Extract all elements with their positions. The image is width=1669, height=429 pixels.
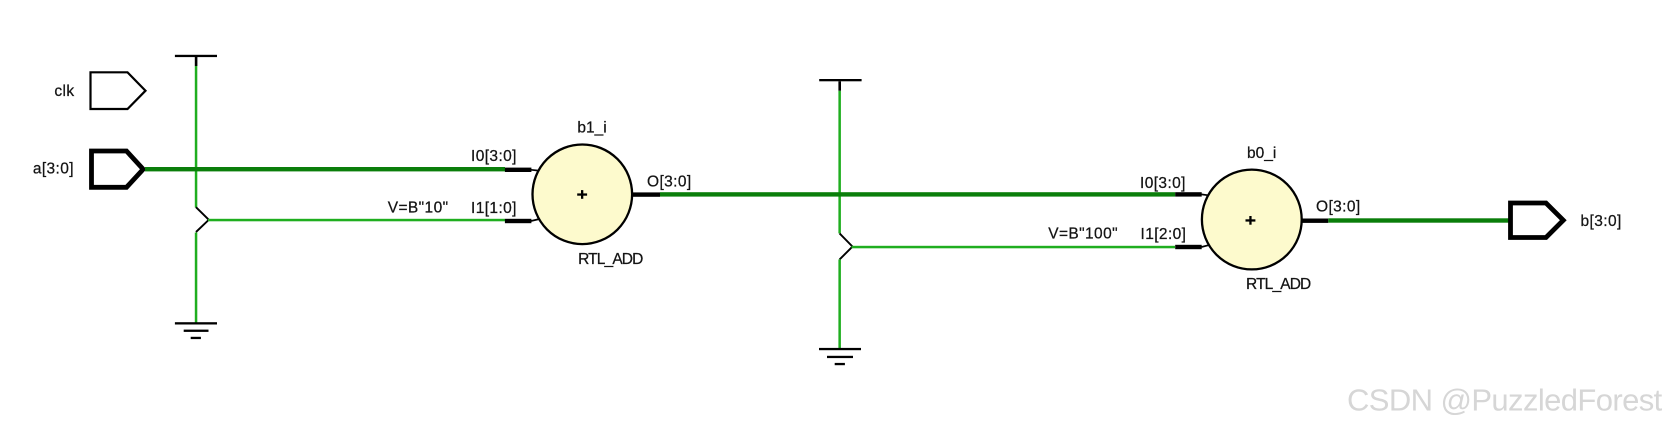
pin label I0[3:0] of b1_i [471,148,517,165]
svg-text:O[3:0]: O[3:0] [1316,199,1361,216]
watermark CSDN @PuzzledForest [1347,383,1663,418]
input port clk [91,72,146,109]
svg-text:V=B"10": V=B"10" [388,200,449,217]
svg-text:V=B"100": V=B"100" [1048,226,1118,243]
power supply T symbol 1 [175,55,217,66]
cell type label RTL_ADD of b0_i [1246,276,1311,293]
svg-text:RTL_ADD: RTL_ADD [578,251,643,268]
instance label b0_i [1247,145,1276,162]
port label b[3:0] [1581,213,1622,230]
pin stub O of b1_i [633,192,661,196]
svg-text:clk: clk [54,83,74,100]
svg-text:RTL_ADD: RTL_ADD [1246,276,1311,293]
input port a[3:0] [92,151,144,187]
bus tap 2 chevron [840,233,853,259]
svg-text:b1_i: b1_i [577,120,606,137]
output port b[3:0] [1511,203,1564,238]
pin label I0[3:0] of b0_i [1140,175,1186,192]
power supply T symbol 2 [819,79,861,91]
cell type label RTL_ADD of b1_i [578,251,643,268]
pin label O[3:0] of b1_i [647,174,692,191]
plus sign of b1_i [577,190,587,199]
wire bus a[3:0] from port a to adder b1_i I0 [145,167,505,171]
pin stub I1 of b1_i [505,219,540,223]
wire bus from b0_i O to port b[3:0] [1328,218,1510,222]
port label a[3:0] [33,161,74,178]
adder U1 b1_i circle [533,145,633,245]
svg-text:O[3:0]: O[3:0] [647,174,692,191]
svg-text:I1[2:0]: I1[2:0] [1141,226,1187,243]
pin stub I0 of b0_i [1175,192,1208,196]
svg-text:b0_i: b0_i [1247,145,1276,162]
wire vertical constant net 2 lower segment [838,259,841,348]
svg-text:b[3:0]: b[3:0] [1581,213,1622,230]
pin label O[3:0] of b0_i [1316,199,1361,216]
value label V=B"100" [1048,226,1118,243]
ground symbol 1 [175,322,217,339]
svg-text:I0[3:0]: I0[3:0] [1140,175,1186,192]
pin stub O of b0_i [1302,219,1328,223]
ground symbol 2 [819,348,861,365]
svg-text:a[3:0]: a[3:0] [33,161,74,178]
wire constant net V=B"100" to adder b0_i I1 [852,246,1176,249]
port label clk [54,83,74,100]
pin label I1[1:0] of b1_i [471,200,517,217]
svg-text:CSDN @PuzzledForest: CSDN @PuzzledForest [1347,383,1663,418]
wire vertical constant net 1 upper segment [195,66,198,208]
pin label I1[2:0] of b0_i [1141,226,1187,243]
bus tap 1 chevron [196,207,209,232]
svg-text:I1[1:0]: I1[1:0] [471,200,517,217]
wire vertical constant net 1 lower segment [195,233,198,323]
pin stub I1 of b0_i [1175,245,1210,249]
adder U2 b0_i circle [1202,170,1302,270]
wire vertical constant net 2 upper segment [838,91,841,234]
plus sign of b0_i [1246,216,1256,225]
pin stub I0 of b1_i [505,168,539,172]
wire bus from b1_i O to b0_i I0 [660,192,1175,196]
instance label b1_i [577,120,606,137]
svg-text:I0[3:0]: I0[3:0] [471,148,517,165]
value label V=B"10" [388,200,449,217]
wire constant net V=B"10" to adder b1_i I1 [208,219,505,222]
